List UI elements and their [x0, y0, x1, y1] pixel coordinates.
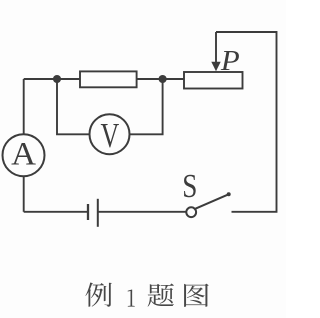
caption char 1 [128, 290, 135, 307]
battery positive plate (long) [97, 199, 99, 227]
voltmeter V circle [90, 114, 130, 154]
switch S lever [196, 194, 229, 208]
wire switch to bottom-right corner and right vertical [216, 32, 277, 212]
wire left vertical upper [23, 79, 25, 135]
svg-text:P: P [220, 46, 240, 76]
node junction right [159, 75, 167, 83]
caption char 例 [85, 282, 111, 306]
svg-text:S: S [182, 167, 197, 205]
switch S lever tip [227, 192, 231, 196]
battery negative plate (short) [87, 204, 89, 220]
svg-text:V: V [100, 117, 119, 156]
wire rheostat wiper stem [215, 32, 217, 64]
switch S pivot circle [186, 207, 196, 217]
wire between resistor and rheostat [137, 78, 184, 80]
rheostat P body [184, 72, 243, 89]
wire voltmeter branch left [57, 81, 90, 134]
caption char 图 [184, 284, 209, 307]
node junction left [53, 75, 61, 83]
wire voltmeter branch right [130, 81, 163, 134]
rheostat P wiper arrowhead [211, 62, 220, 71]
ammeter A circle [3, 134, 45, 176]
wire top-left horizontal [24, 78, 80, 80]
wire bottom-left to battery [24, 211, 88, 213]
wire battery to switch [98, 211, 186, 213]
svg-text:A: A [11, 136, 36, 172]
caption char 题 [148, 283, 174, 306]
resistor R [80, 71, 137, 87]
wire left vertical lower [23, 176, 25, 212]
